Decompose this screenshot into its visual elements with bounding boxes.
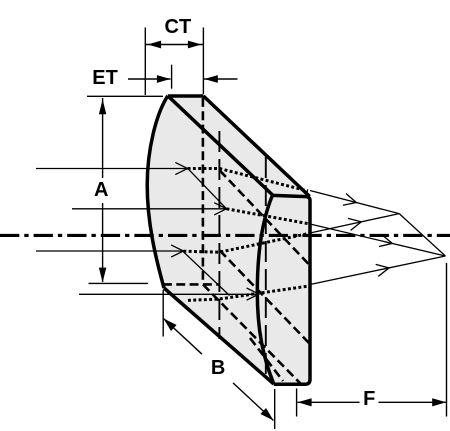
svg-text:A: A xyxy=(94,179,108,201)
svg-text:CT: CT xyxy=(165,16,192,38)
svg-text:ET: ET xyxy=(92,67,118,89)
svg-text:F: F xyxy=(363,388,375,410)
svg-text:B: B xyxy=(211,357,225,379)
